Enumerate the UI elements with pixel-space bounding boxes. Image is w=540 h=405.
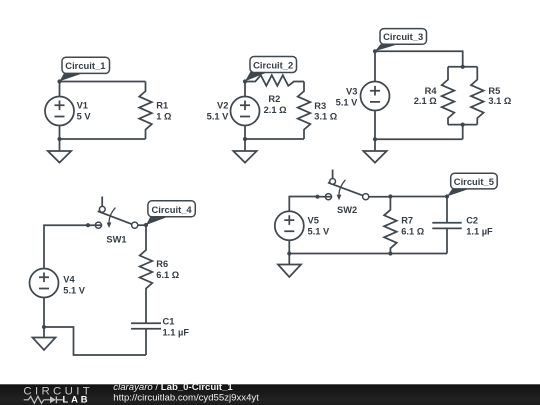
ground circuit1 xyxy=(48,139,71,163)
svg-text:Circuit_1: Circuit_1 xyxy=(65,60,105,71)
svg-text:5.1 V: 5.1 V xyxy=(63,286,86,296)
svg-text:6.1 Ω: 6.1 Ω xyxy=(156,270,180,280)
svg-text:6.1 Ω: 6.1 Ω xyxy=(401,227,425,237)
parallel bottom rail xyxy=(448,124,477,126)
svg-text:Circuit_5: Circuit_5 xyxy=(454,176,494,187)
svg-text:LAB: LAB xyxy=(63,394,91,405)
flag Circuit_5 xyxy=(447,173,497,196)
node SW1 in xyxy=(86,223,90,227)
svg-text:R3: R3 xyxy=(314,101,326,111)
node R7 top xyxy=(388,194,392,198)
resistor R6 xyxy=(140,225,153,323)
wire bottom circuit3 xyxy=(375,138,463,140)
resistor R5 xyxy=(471,67,484,125)
svg-text:SW2: SW2 xyxy=(337,205,357,215)
node top circuit3 xyxy=(373,49,377,53)
svg-text:R4: R4 xyxy=(425,86,438,96)
wire V4 to SW1 xyxy=(44,225,102,268)
node SW1 out xyxy=(144,223,148,227)
svg-text:R7: R7 xyxy=(401,216,413,226)
svg-text:Circuit_2: Circuit_2 xyxy=(253,60,293,71)
wire bottom circuit1 xyxy=(60,138,146,140)
wire SW2 to R7 xyxy=(369,196,391,198)
resistor R2 (horizontal) xyxy=(245,75,304,86)
node bottom circuit1 xyxy=(57,137,61,141)
node bottom circuit2 xyxy=(243,137,247,141)
footer background xyxy=(0,384,540,405)
node R7 bottom xyxy=(388,251,392,255)
switch SW2 xyxy=(325,170,369,201)
resistor R4 xyxy=(442,67,455,125)
voltage source V5 xyxy=(275,211,304,253)
flag Circuit_3 xyxy=(375,29,427,51)
wire top circuit1 xyxy=(60,81,146,83)
flag Circuit_2 xyxy=(245,57,297,82)
voltage source V2 xyxy=(231,82,260,140)
wire into SW2 xyxy=(318,196,333,198)
voltage source V3 xyxy=(361,51,390,139)
parallel top rail xyxy=(448,66,477,68)
svg-text:SW1: SW1 xyxy=(106,235,126,245)
svg-text:C1: C1 xyxy=(163,316,175,326)
node rail bottom xyxy=(461,123,465,127)
wire SW1 to node xyxy=(138,224,146,226)
capacitor C2 xyxy=(432,197,461,254)
node bottom circuit4 xyxy=(42,325,46,329)
svg-text:Circuit_3: Circuit_3 xyxy=(383,31,423,42)
ground circuit5 xyxy=(278,254,301,278)
wire R7 to C2 top xyxy=(390,196,447,198)
svg-text:V2: V2 xyxy=(217,101,228,111)
voltage source V1 xyxy=(45,82,74,140)
svg-text:5.1 V: 5.1 V xyxy=(336,97,359,107)
svg-text:1.1 µF: 1.1 µF xyxy=(466,227,493,237)
resistor R7 xyxy=(384,197,397,254)
svg-text:Circuit_4: Circuit_4 xyxy=(152,204,193,215)
node SW2 in xyxy=(315,195,319,199)
resistor R3 xyxy=(298,82,311,140)
svg-text:R2: R2 xyxy=(268,94,280,104)
svg-text:2.1 Ω: 2.1 Ω xyxy=(414,96,438,106)
node rail top xyxy=(461,65,465,69)
wire V5 to SW2 xyxy=(289,197,317,212)
wire bottom circuit4 xyxy=(44,327,146,355)
node V5 bottom xyxy=(287,251,291,255)
svg-text:5.1 V: 5.1 V xyxy=(207,111,230,121)
node bottom circuit3 xyxy=(373,137,377,141)
svg-text:R6: R6 xyxy=(156,259,168,269)
svg-text:1 Ω: 1 Ω xyxy=(156,111,172,121)
svg-text:3.1 Ω: 3.1 Ω xyxy=(314,112,338,122)
svg-text:3.1 Ω: 3.1 Ω xyxy=(488,96,512,106)
node top circuit1 xyxy=(57,79,61,83)
ground circuit2 xyxy=(233,139,256,163)
wire bottom circuit2 xyxy=(245,138,304,140)
ground circuit4 xyxy=(33,327,56,350)
wire feed down circuit3 xyxy=(462,125,464,140)
svg-text:2.1 Ω: 2.1 Ω xyxy=(264,105,288,115)
flag Circuit_1 xyxy=(60,57,110,81)
svg-text:V5: V5 xyxy=(308,216,319,226)
capacitor C1 xyxy=(131,323,161,355)
svg-text:V4: V4 xyxy=(63,274,75,284)
node top circuit2 xyxy=(243,79,247,83)
svg-text:http://circuitlab.com/cyd55zj9: http://circuitlab.com/cyd55zj9xx4yt xyxy=(113,392,259,403)
svg-text:1.1 µF: 1.1 µF xyxy=(163,327,190,337)
voltage source V4 xyxy=(30,269,59,328)
svg-text:V3: V3 xyxy=(346,86,357,96)
svg-text:V1: V1 xyxy=(77,101,88,111)
switch SW1 xyxy=(95,197,137,229)
wire top circuit3 xyxy=(375,51,463,67)
svg-text:C2: C2 xyxy=(466,216,478,226)
svg-text:R5: R5 xyxy=(488,86,500,96)
logo waveform xyxy=(24,396,63,403)
node C2 top xyxy=(445,194,449,198)
svg-text:5 V: 5 V xyxy=(77,111,92,121)
svg-text:R1: R1 xyxy=(156,101,168,111)
svg-text:5.1 V: 5.1 V xyxy=(308,226,331,236)
wire bottom circuit5 xyxy=(289,253,447,255)
flag Circuit_4 xyxy=(146,201,195,225)
logo diode triangle xyxy=(50,396,56,403)
resistor R1 xyxy=(139,82,152,140)
ground circuit3 xyxy=(363,139,386,162)
